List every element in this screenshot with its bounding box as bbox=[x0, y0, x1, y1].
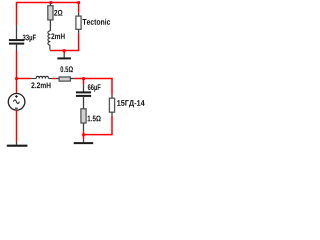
capacitor 33µF bbox=[9, 25, 24, 51]
label Tectonic bbox=[82, 19, 110, 25]
wire Tectonic branch upper bbox=[78, 3, 80, 13]
resistor 1.5Ω bbox=[81, 109, 86, 132]
wire left vertical lower bbox=[16, 110, 18, 142]
label 2.2mH bbox=[31, 82, 50, 88]
resistor 2Ω bbox=[48, 3, 53, 31]
wire mid rail right segment bbox=[75, 78, 113, 80]
label 2Ω bbox=[54, 10, 62, 16]
wire mid ground stub bbox=[63, 51, 65, 54]
wire right branch upper bbox=[111, 78, 113, 95]
label 15ГД-14 bbox=[117, 100, 145, 107]
wire Tectonic branch lower bbox=[78, 33, 80, 51]
node junction mid ground bbox=[63, 49, 66, 52]
speaker Tectonic bbox=[76, 13, 81, 34]
ground middle bbox=[57, 54, 71, 59]
node junction 66µF branch bbox=[82, 77, 85, 80]
label 2mH bbox=[51, 33, 64, 39]
wire bottom-right ground stub bbox=[83, 135, 85, 139]
label 33µF bbox=[23, 35, 36, 42]
node junction bottom-right bbox=[82, 133, 85, 136]
label 1.5Ω bbox=[88, 116, 101, 122]
resistor 0.5Ω bbox=[56, 77, 75, 81]
wire left vertical upper bbox=[16, 3, 18, 26]
AC source V1 bbox=[8, 94, 25, 111]
node junction left rail bbox=[15, 77, 18, 80]
label 66µF bbox=[88, 84, 101, 91]
wire 2mH bottom rail bbox=[50, 50, 79, 52]
wire left vertical middle bbox=[16, 51, 18, 94]
inductor 2mH bbox=[48, 31, 50, 50]
wire 1.5Ω bottom bbox=[83, 131, 85, 134]
wire right branch lower + bottom rail bbox=[84, 116, 113, 135]
ground bottom-left bbox=[7, 142, 28, 146]
node junction top rail / 2Ω branch bbox=[50, 1, 53, 4]
ground bottom-right bbox=[74, 139, 94, 143]
wire 66µF branch upper bbox=[83, 79, 85, 85]
wire between 2.2mH and 0.5Ω bbox=[52, 78, 55, 80]
wire mid rail left segment bbox=[17, 78, 31, 80]
wire top horizontal rail bbox=[16, 2, 79, 4]
speaker 15ГД-14 bbox=[109, 95, 114, 116]
node junction top rail / Tectonic branch bbox=[77, 1, 80, 4]
label 0.5Ω bbox=[60, 66, 73, 72]
capacitor 66µF bbox=[76, 84, 91, 109]
inductor 2.2mH bbox=[31, 76, 53, 78]
